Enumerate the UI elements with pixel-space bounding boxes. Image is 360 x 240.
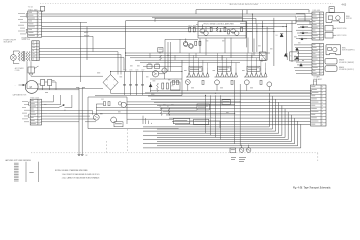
transformer T401 core <box>23 51 25 61</box>
component box B2 <box>173 119 190 124</box>
bus tap verticals <box>149 53 151 58</box>
wire between boxes <box>127 118 173 120</box>
connector strip P401/J401 <box>28 11 42 37</box>
junction dot d <box>286 26 287 27</box>
chassis dashed boundary <box>31 152 318 154</box>
resistor R402 <box>193 27 195 32</box>
legend cell text <box>29 171 33 174</box>
resistor R401 <box>189 27 191 32</box>
wire block out right <box>127 101 240 103</box>
wire drop left pair <box>78 88 80 155</box>
transistor Q406 <box>189 44 193 48</box>
amplifier board outline <box>126 20 310 22</box>
resistor R438 <box>231 80 233 84</box>
wire under amp <box>165 38 198 40</box>
bus feeder v1 <box>142 116 144 124</box>
resistor R407 <box>241 27 243 31</box>
left small labels <box>84 31 88 34</box>
wire xfmr sec to bridge top <box>30 61 32 76</box>
wire to strip C top <box>313 80 315 86</box>
wire S3 r7 <box>42 118 97 120</box>
array stubs 1 <box>188 53 190 68</box>
bracket left of P401 lower <box>26 29 27 33</box>
junction dot c <box>273 31 274 32</box>
resistor R405 <box>224 27 226 31</box>
wire y107 right <box>96 106 197 108</box>
drive transistor Q413 <box>267 82 272 87</box>
indicator lamp DS401 <box>10 55 16 61</box>
capacitor C401 <box>220 28 222 31</box>
diode group d <box>296 48 299 51</box>
capstan relay box <box>329 7 334 13</box>
resistor R440 <box>160 108 162 116</box>
bridge output wires <box>110 71 112 74</box>
drive array 2 <box>218 66 231 71</box>
regulator wires <box>150 78 182 80</box>
center bus h4 <box>135 59 267 61</box>
diode CR402 <box>284 53 287 56</box>
svg-text:R402: R402 <box>193 26 196 28</box>
switch S402 <box>42 107 59 109</box>
svg-text:POWER: POWER <box>22 37 29 39</box>
arrow to capstan <box>19 84 25 86</box>
wires cluster to arrays <box>199 39 201 54</box>
connector strip P403 <box>30 99 41 125</box>
wire xfmr sec to bridge bot <box>26 61 28 88</box>
resistor R441 <box>168 108 170 116</box>
filter cap C406 <box>136 71 138 84</box>
wire mesh v4 <box>262 21 264 52</box>
switch box S401 <box>290 52 299 61</box>
junction dot b <box>262 26 263 27</box>
transistor Q404 <box>235 31 239 35</box>
left drop vertical b <box>86 27 88 60</box>
component box B3 <box>194 119 209 125</box>
wire bus y18.4 <box>155 17 256 19</box>
svg-text:R9: R9 <box>160 106 162 108</box>
amplifier box <box>198 22 246 39</box>
brake solenoid 1 <box>325 59 337 65</box>
brake solenoid 2 <box>325 66 337 72</box>
svg-text:TO J4: TO J4 <box>28 6 33 8</box>
regulator transistor Q408 <box>162 68 167 73</box>
wire S3 r8 step <box>42 121 80 123</box>
svg-text:C404: C404 <box>123 70 126 72</box>
wires into strip B <box>294 44 312 46</box>
chassis dashed vertical b <box>127 129 129 153</box>
drive transistor Q412 <box>244 80 249 85</box>
transistor Q415 <box>111 117 117 123</box>
regulator wire y66.5 <box>143 66 182 68</box>
regulator transistor Q407 <box>152 71 158 77</box>
wire corner top <box>196 9 309 11</box>
border dashed page fold line <box>40 3 333 5</box>
takeup drive transistor <box>325 26 333 32</box>
diode CR401 <box>280 34 283 37</box>
left drop vertical a <box>80 22 82 82</box>
wire mesh h2 <box>247 31 292 33</box>
center bus h2 <box>125 54 265 56</box>
resistor R437 <box>202 80 204 84</box>
svg-text:CORD: CORD <box>15 70 21 72</box>
svg-text:P405 J405: P405 J405 <box>313 10 321 12</box>
svg-text:REEL: REEL <box>342 48 346 50</box>
pre-regulator box <box>158 48 163 53</box>
array collect bus 2 <box>150 92 312 94</box>
svg-text:S4: S4 <box>290 56 292 58</box>
resistor R436 <box>173 80 175 84</box>
wire mesh v8 <box>291 21 293 62</box>
svg-text:TP40: TP40 <box>246 150 249 152</box>
svg-text:R1: R1 <box>167 106 169 108</box>
wire mesh v6 <box>273 18 275 66</box>
drive transistor Q410 <box>185 80 190 85</box>
center bus h3 <box>130 57 260 59</box>
connector strip P405 <box>312 12 324 40</box>
oscillator transistor Q416 <box>121 102 126 107</box>
resistor R408 <box>195 41 197 45</box>
regulator extra box a <box>147 65 152 69</box>
wire S3 r2 up <box>42 104 61 106</box>
regulator box VR401 <box>171 82 181 90</box>
svg-text:C40: C40 <box>275 35 278 37</box>
legend divider v2 <box>37 162 39 182</box>
transformer T401 primary winding <box>18 52 20 62</box>
center bus h1 <box>125 52 270 54</box>
psu bottom bus <box>95 94 182 96</box>
svg-text:TAPE RECORDER SERVICE DATA: TAPE RECORDER SERVICE DATA <box>229 3 259 6</box>
wires into strip A <box>296 12 312 14</box>
test point box <box>230 148 236 153</box>
svg-text:R401: R401 <box>189 26 192 28</box>
chassis dashed vertical a <box>106 141 108 153</box>
lower wire bus pack with staircase <box>145 92 311 94</box>
capstan resistor R410 <box>48 80 52 86</box>
resistor R406 <box>228 30 230 34</box>
drive transistor Q411 <box>215 80 220 85</box>
supply drive transistor <box>325 33 333 39</box>
bus feeder v2 <box>205 95 207 133</box>
wire mesh v1 <box>246 21 248 48</box>
component value labels <box>97 72 100 75</box>
wire bus y26.6 <box>42 26 287 28</box>
enclosure inner verticals <box>164 39 166 71</box>
array stubs 3 <box>246 53 248 68</box>
connector strip P407 <box>311 85 327 126</box>
component box aux <box>222 100 231 105</box>
svg-text:P407: P407 <box>314 81 318 83</box>
wire S2 r6 <box>39 54 121 56</box>
pre-regulator resistor <box>160 55 162 61</box>
regulator extra box b <box>155 65 160 69</box>
amplifier internal wires <box>198 26 246 28</box>
bracket left of P401 upper <box>26 14 27 17</box>
bracket left of P403 <box>29 102 30 105</box>
wire bus y17.8 <box>152 17 243 19</box>
wire S3 r4 <box>42 109 93 111</box>
diode group a <box>302 26 304 28</box>
svg-text:REEL: REEL <box>346 16 350 18</box>
transistor Q402 <box>204 31 208 35</box>
speed control block outline <box>88 96 127 98</box>
relay K401 <box>260 52 267 61</box>
chassis dashed vertical c <box>317 153 319 161</box>
connector stub box <box>41 6 45 11</box>
resistor R403 <box>210 27 212 31</box>
bridge rectifier CR403 <box>103 75 118 91</box>
resistor R411 <box>157 83 159 92</box>
wire bus y16 <box>42 15 296 17</box>
array stubs 2 <box>217 53 219 68</box>
transistor Q417 <box>239 148 244 153</box>
resistor R439 <box>260 80 262 84</box>
svg-text:SOLENOID (SUPPLY): SOLENOID (SUPPLY) <box>339 69 354 71</box>
svg-text:MC: MC <box>86 155 88 157</box>
filter cap C407 <box>142 71 144 84</box>
resistor R412 <box>162 83 164 89</box>
junction dot a <box>252 13 253 14</box>
wire S3 r5 long <box>42 112 235 114</box>
capstan motor B401 <box>25 81 38 94</box>
wire S3 r6 <box>42 115 91 117</box>
wire S2 r4 <box>39 48 125 50</box>
junction dots <box>160 53 161 54</box>
transistor Q401 <box>200 29 205 34</box>
resistor R409 <box>199 41 201 45</box>
wire y110 right <box>96 109 197 111</box>
wire name labels left of P401 <box>18 12 25 15</box>
wire bus y14 <box>42 13 305 15</box>
wire lamp to xfmr <box>12 51 14 55</box>
legend divider v1 <box>25 162 27 182</box>
component box TP1 <box>197 104 209 110</box>
capstan phase capacitor C402 <box>41 80 45 86</box>
wire mesh v3 <box>256 24 258 52</box>
svg-text:C406: C406 <box>135 70 138 72</box>
capacitor C403 plates <box>78 153 81 155</box>
wire strip1 row8 right <box>42 35 93 37</box>
diode group e <box>296 57 299 60</box>
wire mesh v5 <box>266 27 268 61</box>
array collect bus 1 <box>150 90 312 92</box>
svg-text:XFMR T401: XFMR T401 <box>22 39 31 41</box>
block box B1 <box>114 122 123 127</box>
supply motor M2 <box>326 45 341 55</box>
left drop vertical c <box>92 36 94 51</box>
wire mesh v7 <box>285 24 287 57</box>
diode group b <box>302 32 304 34</box>
svg-text:SUPPLY DRIVE: SUPPLY DRIVE <box>337 35 347 37</box>
legend reference rows <box>14 162 19 165</box>
diode group f <box>300 64 303 67</box>
wire mesh h1 <box>240 23 296 25</box>
center bus h5 <box>140 62 240 64</box>
filter cap C404 <box>124 71 126 84</box>
wire bus y28.8 <box>42 28 274 30</box>
transistor Q403 <box>231 29 236 34</box>
filter cap C405 <box>130 71 132 84</box>
wire S2 r7 <box>39 56 124 58</box>
resistor R413 <box>166 83 168 89</box>
diode group c <box>301 38 303 40</box>
AC plug <box>28 67 34 73</box>
svg-text:PHOTO SENSE CONTROL AMPLIFIER: PHOTO SENSE CONTROL AMPLIFIER <box>204 23 235 26</box>
svg-text:4-63: 4-63 <box>342 4 347 6</box>
transistor Q405 <box>184 42 188 46</box>
wire bus y31.5 <box>42 31 253 33</box>
drive array 3 <box>247 66 260 71</box>
transistor Q409 <box>183 41 187 45</box>
resistor R404 zigzag <box>216 27 218 32</box>
transistor Q418 <box>246 148 251 153</box>
wire mesh v2 <box>251 14 253 52</box>
regulator labels <box>148 62 151 65</box>
wire name labels left of P403 <box>22 100 28 103</box>
svg-text:C407: C407 <box>141 70 144 72</box>
svg-text:C405: C405 <box>129 70 132 72</box>
zener CR404 <box>149 84 152 87</box>
svg-text:Fig. 4-36. Tape Transport Sche: Fig. 4-36. Tape Transport Schematic <box>293 187 331 190</box>
drive array 1 <box>189 66 202 71</box>
block small parts <box>104 102 106 106</box>
svg-text:MOTOR (SUPPLY): MOTOR (SUPPLY) <box>342 50 355 52</box>
connector strip P406 <box>312 44 324 76</box>
wire S2 r5 <box>39 51 118 53</box>
transformer T401 secondary winding <box>26 52 28 62</box>
wire strip1 row4 right <box>42 21 87 23</box>
svg-text:MOTOR: MOTOR <box>346 18 352 20</box>
takeup motor M1 <box>326 13 345 23</box>
svg-text:NOTES: UNLESS OTHERWISE SPECIF: NOTES: UNLESS OTHERWISE SPECIFIED <box>55 170 88 172</box>
bus feeder v3 <box>234 80 236 144</box>
wire S3 r1 up <box>42 101 54 103</box>
transistor Q414 <box>93 114 99 120</box>
connector strip P402 <box>32 41 39 61</box>
svg-text:OSC: OSC <box>101 99 104 101</box>
bottom text smudges <box>231 156 236 159</box>
svg-text:POWER ON/OFF: POWER ON/OFF <box>4 40 17 42</box>
capstan wires <box>38 83 40 85</box>
